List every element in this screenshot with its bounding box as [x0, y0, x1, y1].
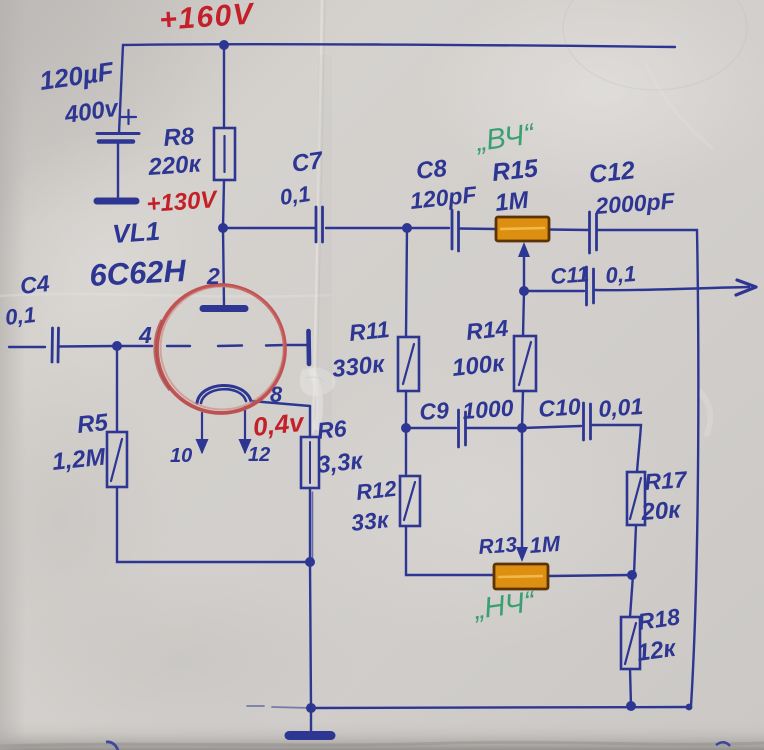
wire input left — [9, 346, 45, 348]
wire R5 top — [116, 346, 118, 432]
wire R12 top — [405, 428, 407, 474]
svg-text:1M: 1M — [494, 187, 531, 217]
wire C4 to grid node — [59, 345, 117, 348]
tube cathode arc — [197, 385, 251, 403]
stray pen mark bottom right — [716, 742, 730, 746]
potentiometer R15 orange body — [496, 217, 549, 241]
svg-text:100к: 100к — [451, 349, 508, 382]
wire grid solid part — [117, 345, 152, 347]
svg-text:R6: R6 — [316, 415, 348, 444]
capacitor C10 — [584, 403, 591, 440]
node C11 line junction — [519, 286, 529, 296]
node top of R11 — [402, 223, 412, 233]
svg-text:1M: 1M — [529, 531, 562, 558]
wire C10 to R17 corner — [592, 425, 641, 472]
wire R6 top — [309, 406, 311, 437]
resistor R5 — [107, 432, 127, 487]
svg-text:R11: R11 — [348, 316, 391, 346]
plus sign of 120uF — [121, 110, 136, 124]
wire top rail — [123, 44, 675, 47]
capacitor C12 — [590, 212, 597, 253]
stray pen stroke bottom left — [106, 742, 118, 750]
wire C7 to node — [326, 227, 404, 229]
capacitor C8 — [452, 210, 459, 251]
resistor R6 — [301, 437, 319, 488]
svg-text:1,2M: 1,2M — [51, 443, 108, 476]
tube anode plate — [203, 305, 245, 312]
svg-text:C9: C9 — [419, 397, 450, 425]
node R17/R13 junction — [627, 570, 637, 580]
wire C8 to R15 — [459, 227, 496, 230]
paper creases — [0, 0, 747, 435]
svg-text:10: 10 — [170, 445, 192, 467]
resistor R11 — [398, 337, 419, 391]
svg-text:1000: 1000 — [462, 394, 515, 424]
resistor R14 — [514, 336, 536, 391]
svg-text:0,1: 0,1 — [4, 302, 37, 330]
wire R14 column top — [523, 291, 524, 336]
wire C12 right then down right side — [598, 230, 698, 706]
wire bottom rail — [311, 707, 689, 708]
wire R8 bottom to anode node — [223, 180, 224, 228]
svg-text:C12: C12 — [588, 156, 637, 189]
wire anode vertical into tube — [223, 228, 224, 305]
svg-text:0,01: 0,01 — [598, 393, 644, 422]
svg-text:C4: C4 — [19, 270, 51, 299]
node anode junction — [218, 223, 228, 233]
svg-text:4: 4 — [138, 322, 152, 348]
resistor R12 — [400, 476, 420, 526]
svg-text:C10: C10 — [538, 393, 582, 422]
svg-text:VL1: VL1 — [111, 216, 161, 249]
wire grid right stub — [287, 344, 308, 346]
wire left drop to filter cap — [119, 45, 123, 133]
wire node to C8 — [407, 227, 449, 229]
svg-text:6C62H: 6C62H — [89, 253, 188, 293]
node center (R14 bottom) — [517, 423, 527, 433]
svg-text:0,4v: 0,4v — [251, 407, 306, 442]
wire R11 column — [406, 228, 407, 337]
wire R5 bottom to corner — [117, 487, 310, 562]
svg-text:R5: R5 — [76, 409, 110, 439]
svg-text:C8: C8 — [415, 155, 449, 185]
node bottom rail junction — [306, 703, 316, 713]
chassis bar (neg terminal) — [97, 198, 136, 205]
potentiometer R13 orange body — [494, 564, 548, 589]
svg-text:33к: 33к — [350, 506, 391, 536]
node R6 line crossing — [305, 557, 315, 567]
wire R15 to C12 — [549, 228, 588, 231]
wire C9 to center node — [467, 427, 522, 429]
svg-text:8: 8 — [270, 382, 283, 407]
wire R15 wiper arrow — [523, 254, 525, 291]
capacitor C7 — [316, 207, 323, 242]
wire R13 wiper arrow — [521, 428, 523, 550]
svg-text:C7: C7 — [290, 147, 326, 178]
svg-text:3,3к: 3,3к — [316, 447, 366, 479]
wire C11 row — [524, 290, 584, 292]
node top rail junction — [219, 40, 229, 50]
node bottom right corner — [686, 704, 693, 711]
svg-text:R13: R13 — [478, 533, 518, 559]
wire R14 bottom — [522, 391, 523, 428]
wire R17 bottom — [634, 525, 636, 574]
wire heater pin 10 — [201, 413, 203, 452]
svg-text:R14: R14 — [465, 315, 510, 345]
grid stub end bar — [306, 331, 311, 364]
wire R11 bottom — [405, 391, 407, 428]
svg-text:12к: 12к — [635, 635, 679, 667]
wire C11 output with arrow — [595, 287, 749, 290]
svg-text:2: 2 — [206, 263, 220, 289]
svg-text:R12: R12 — [355, 476, 399, 505]
wire stub to ground bar — [310, 708, 312, 731]
svg-text:+130V: +130V — [146, 186, 220, 218]
resistor R17 — [627, 472, 645, 525]
svg-text:20к: 20к — [640, 496, 683, 526]
wire grid dashes — [167, 345, 284, 346]
wire R8 top — [223, 45, 225, 128]
capacitor C4 — [52, 328, 59, 362]
svg-text:R17: R17 — [644, 466, 689, 495]
resistor R8 — [214, 128, 235, 180]
node grid junction — [112, 341, 122, 351]
wire heater pin 12 — [244, 407, 246, 452]
capacitor 120uF plates — [97, 132, 139, 135]
svg-text:12: 12 — [248, 444, 270, 466]
svg-text:0,1: 0,1 — [605, 261, 637, 288]
svg-text:R15: R15 — [491, 154, 541, 187]
wire bottom rail faint left part — [247, 706, 311, 708]
wire cap to chassis bar — [117, 142, 119, 197]
svg-text:330к: 330к — [331, 350, 388, 383]
capacitor C9 — [459, 410, 466, 447]
svg-text:0,1: 0,1 — [278, 181, 312, 210]
wire R6 bottom down to bottom rail — [310, 488, 311, 708]
capacitor C11 — [587, 267, 594, 305]
ground bar — [289, 731, 331, 740]
wire R12 bottom to R13 row — [406, 527, 493, 575]
tube VL1 red envelope circle — [157, 285, 285, 413]
wire anode node to C7 — [223, 227, 315, 229]
wire R18 bottom — [630, 669, 631, 706]
svg-text:C11: C11 — [550, 261, 590, 289]
wire R18 top — [630, 575, 633, 617]
wire cathode to R6 column — [251, 401, 310, 406]
wire to C10 — [522, 426, 581, 428]
svg-text:220к: 220к — [147, 150, 204, 181]
svg-text:R8: R8 — [163, 123, 196, 152]
node R18 bottom rail — [626, 701, 636, 711]
wire R13 to junction — [549, 575, 630, 576]
node C9 left — [401, 423, 411, 433]
resistor R18 — [621, 617, 640, 669]
wire C9 row left — [406, 427, 456, 429]
